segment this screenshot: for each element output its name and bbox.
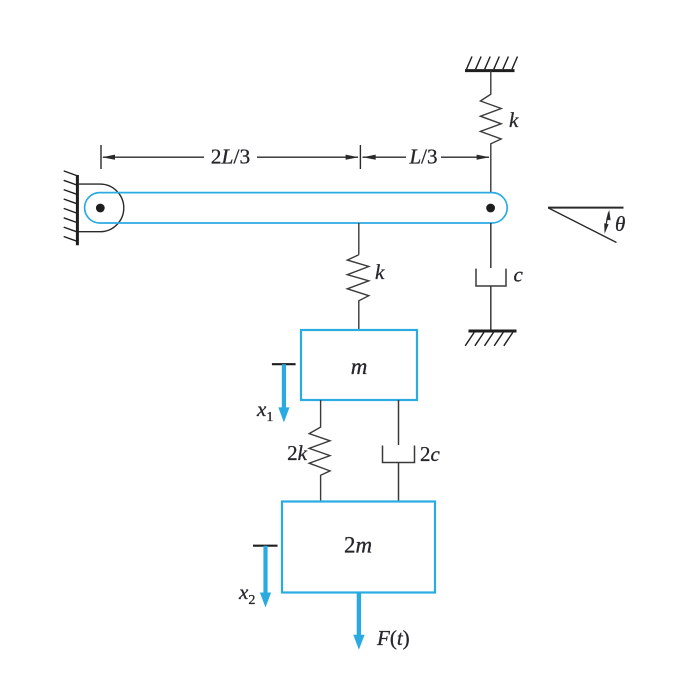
svg-text:F(t): F(t) — [376, 626, 410, 650]
damper 2c rod (top) — [398, 400, 400, 445]
dimension line L/3 — [360, 145, 489, 169]
wall (left) — [64, 171, 78, 245]
svg-text:2c: 2c — [420, 442, 441, 466]
bar (rigid link) — [85, 193, 508, 223]
pin dot (bar right end) — [486, 204, 495, 213]
svg-text:θ: θ — [615, 212, 625, 236]
x1 arrow — [278, 364, 289, 422]
x2 arrow — [260, 546, 271, 608]
spring k (top right) — [480, 71, 501, 193]
ceiling support (top right) — [465, 57, 518, 71]
damper c cup — [476, 269, 506, 286]
x2 reference tick — [253, 545, 278, 547]
pivot pin dot — [96, 204, 105, 213]
svg-text:c: c — [514, 263, 524, 287]
x1 reference tick — [272, 363, 296, 365]
theta reference triangle — [548, 208, 624, 243]
damper 2c cup — [383, 446, 415, 463]
svg-text:k: k — [375, 260, 385, 284]
damper 2c rod (bottom) — [398, 463, 400, 502]
svg-text:k: k — [509, 108, 519, 132]
rod from bar at 2L/3 point — [358, 223, 360, 255]
spring k (middle) — [347, 255, 369, 330]
svg-text:m: m — [351, 354, 368, 379]
rod from damper c to ground — [490, 286, 492, 331]
svg-text:2L/3: 2L/3 — [211, 145, 250, 169]
rod from bar right end down to damper c — [490, 223, 492, 268]
F(t) arrow — [353, 593, 364, 650]
mass m — [301, 330, 417, 400]
theta angle arrow — [604, 210, 610, 234]
dimension line 2L/3 — [101, 145, 359, 169]
mass 2m — [282, 502, 435, 593]
svg-text:2k: 2k — [287, 441, 308, 465]
svg-text:2m: 2m — [344, 533, 372, 558]
ground support (bottom right) — [465, 331, 516, 346]
svg-text:L/3: L/3 — [408, 145, 437, 169]
pivot bracket — [78, 184, 124, 232]
spring 2k — [309, 400, 330, 502]
